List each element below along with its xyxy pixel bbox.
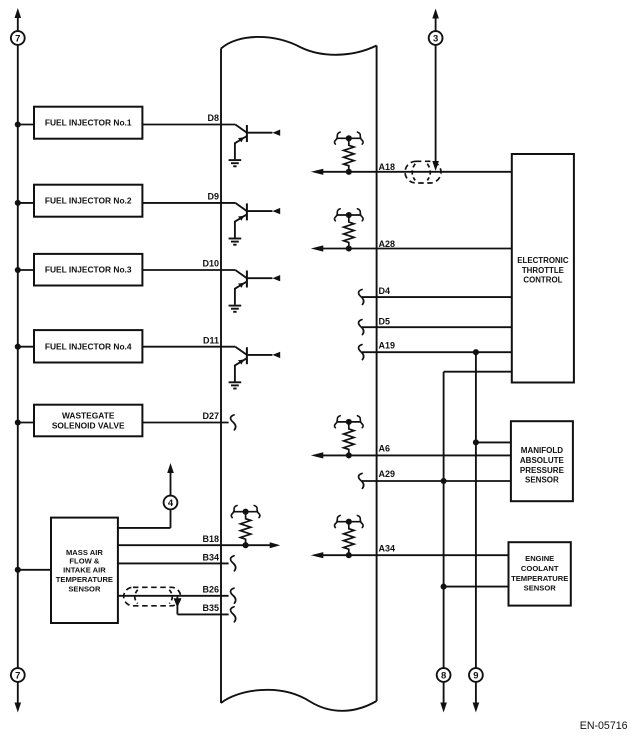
wire: ECM pin D5 to electronic throttle control [362, 326, 512, 328]
svg-text:9: 9 [473, 670, 478, 681]
electronic throttle control box [512, 154, 574, 383]
wire continuation squiggle at B34 [231, 556, 236, 571]
connector 4 arrow up [170, 472, 172, 496]
svg-text:D9: D9 [207, 192, 219, 202]
wire continuation squiggle at A19 [359, 345, 364, 360]
ground (transistor Q2 emitter) [229, 239, 242, 245]
wire: ECM pin A28 to electronic throttle control [316, 248, 512, 250]
svg-text:FUEL INJECTOR No.2: FUEL INJECTOR No.2 [45, 196, 132, 206]
svg-text:D5: D5 [379, 316, 391, 326]
wire continuation squiggle at D5 [359, 320, 364, 335]
svg-text:EN-05716: EN-05716 [580, 720, 628, 732]
injector driver transistor Q2 [142, 203, 280, 238]
left power bus vertical wire [17, 18, 19, 32]
ECM band torn bottom edge [221, 690, 377, 711]
svg-text:A18: A18 [379, 162, 396, 172]
wire: MAF pin B18 with pull-up [118, 544, 271, 546]
connector circle 9 [469, 668, 483, 682]
svg-text:MASS AIR: MASS AIR [66, 548, 103, 557]
junction dot A19 / sensor supply [473, 349, 479, 355]
svg-text:MANIFOLD: MANIFOLD [521, 446, 563, 455]
wire: bus to fuel injector 3 [18, 269, 34, 271]
wire: wastegate to ECM pin D27 [142, 422, 228, 424]
wire continuation squiggle at B26 [231, 588, 236, 603]
A6 arrow left [311, 452, 324, 458]
wire: vertical drain to connector 8 [443, 372, 445, 669]
svg-text:B26: B26 [202, 585, 219, 595]
junction dot on bus at injector 2 row [15, 200, 21, 206]
connector 3 arrow down to A18 [432, 161, 439, 171]
svg-text:4: 4 [168, 498, 174, 509]
svg-text:TEMPERATURE: TEMPERATURE [56, 575, 113, 584]
junction dot at A29 tap [441, 478, 447, 484]
resistor (pull-up) on A6 [334, 416, 363, 459]
connector 9 arrow down [475, 682, 477, 703]
svg-text:D8: D8 [207, 113, 219, 123]
svg-text:FLOW &: FLOW & [69, 557, 99, 566]
wastegate solenoid valve box [34, 405, 142, 437]
wire continuation squiggle at D4 [359, 290, 364, 305]
svg-text:B34: B34 [202, 552, 219, 562]
junction dot on bus at MAF row [15, 567, 21, 573]
wire: bus to fuel injector 4 [18, 346, 34, 348]
junction dot on bus at injector 1 row [15, 121, 21, 127]
svg-text:COOLANT: COOLANT [521, 564, 559, 573]
manifold absolute pressure sensor box [511, 421, 573, 501]
svg-text:TEMPERATURE: TEMPERATURE [511, 574, 568, 583]
left bus top arrow [15, 8, 22, 18]
svg-text:CONTROL: CONTROL [523, 275, 562, 284]
svg-text:D11: D11 [203, 335, 219, 345]
svg-text:ENGINE: ENGINE [525, 554, 554, 563]
svg-text:A28: A28 [379, 239, 396, 249]
wire: connector 3 drop [435, 44, 437, 163]
connector 3 arrow up [435, 19, 437, 32]
junction dot at MAP supply tap [473, 439, 479, 445]
svg-text:SENSOR: SENSOR [524, 584, 557, 593]
fuel injector No.3 box [34, 254, 142, 286]
mass air flow & intake air temperature sensor box [51, 518, 118, 623]
connector circle 3 [429, 31, 443, 45]
wire: MAF pin B26 [118, 595, 229, 597]
injector driver transistor Q4 [142, 347, 280, 382]
inline connector (dashed) on A18 [405, 161, 441, 183]
resistor (pull-up) on B18 [231, 506, 260, 549]
ECM band torn top edge [221, 37, 377, 55]
svg-text:B35: B35 [202, 603, 219, 613]
svg-text:7: 7 [15, 33, 20, 44]
wire: sensor supply vertical to connector 9 [475, 352, 477, 668]
wire: splice drop B26 to B35 [176, 596, 178, 615]
svg-text:ELECTRONIC: ELECTRONIC [517, 256, 569, 265]
fuel injector No.4 box [34, 330, 142, 362]
A28 arrow left [311, 245, 324, 251]
engine coolant temperature sensor box [509, 542, 571, 605]
connector 8 arrow down [443, 682, 445, 703]
svg-text:3: 3 [433, 33, 438, 44]
connector circle 8 [437, 668, 451, 682]
svg-text:D4: D4 [379, 286, 391, 296]
wire: MAF to connector 4 [118, 527, 171, 529]
svg-text:THROTTLE: THROTTLE [522, 266, 564, 275]
junction dot on bus at injector 4 row [15, 344, 21, 350]
svg-text:A29: A29 [379, 469, 396, 479]
wire continuation squiggle at A29 [359, 473, 364, 488]
wire continuation squiggle at B35 [231, 607, 236, 622]
svg-text:SOLENOID VALVE: SOLENOID VALVE [52, 421, 125, 431]
svg-text:FUEL INJECTOR No.4: FUEL INJECTOR No.4 [45, 341, 132, 351]
A18 arrow left [311, 169, 324, 175]
wire: MAF pin B34 [118, 562, 229, 564]
ground (transistor Q1 emitter) [229, 160, 242, 166]
connector circle 7 (top) [11, 31, 25, 45]
wire: bus to MAF sensor [18, 569, 51, 571]
svg-text:A19: A19 [379, 340, 396, 350]
junction dot at coolant sensor tap [441, 584, 447, 590]
wire: electronic throttle control to shield drain [444, 371, 512, 373]
svg-text:FUEL INJECTOR No.1: FUEL INJECTOR No.1 [45, 118, 132, 128]
injector driver transistor Q1 [142, 125, 280, 160]
junction dot on bus at injector 3 row [15, 267, 21, 273]
svg-text:8: 8 [441, 670, 446, 681]
left bus bottom arrow segment [17, 682, 19, 703]
svg-text:SENSOR: SENSOR [525, 476, 559, 485]
wire: ECM pin A18 to electronic throttle control [316, 171, 512, 173]
wire: drain tap to coolant sensor [444, 586, 509, 588]
svg-text:ABSOLUTE: ABSOLUTE [520, 456, 565, 465]
splice arrow down to B35 [174, 598, 182, 608]
wire: ECM pin A19 to electronic throttle control [362, 351, 512, 353]
wire: bus to fuel injector 2 [18, 202, 34, 204]
ground (transistor Q4 emitter) [229, 382, 242, 388]
svg-text:FUEL INJECTOR No.3: FUEL INJECTOR No.3 [45, 265, 132, 275]
ECM band right edge [376, 46, 378, 702]
wire: ECM pin A29 to MAP sensor [362, 480, 511, 482]
wire: ECM pin A6 to MAP sensor [316, 454, 511, 456]
wire: bus to fuel injector 1 [18, 124, 34, 126]
resistor (pull-up) on A28 [334, 209, 363, 252]
wire: supply tap to MAP sensor [476, 441, 511, 443]
wire: bus to wastegate solenoid valve [18, 422, 34, 424]
resistor (pull-up) on A18 [334, 132, 363, 175]
ground (transistor Q3 emitter) [229, 306, 242, 312]
wire: ECM pin D4 to electronic throttle control [362, 296, 512, 298]
svg-text:7: 7 [15, 670, 20, 681]
junction dot on bus at wastegate row [15, 419, 21, 425]
svg-text:B18: B18 [202, 534, 219, 544]
connector circle 4 [164, 496, 178, 510]
inline connector (dashed) on B26/B35 [124, 587, 181, 606]
connector circle 7 (bottom) [11, 668, 25, 682]
svg-text:A34: A34 [379, 544, 396, 554]
ECM band left edge [220, 49, 222, 704]
svg-text:D27: D27 [202, 411, 219, 421]
svg-text:D10: D10 [202, 259, 219, 269]
svg-text:PRESSURE: PRESSURE [520, 466, 565, 475]
fuel injector No.2 box [34, 185, 142, 217]
svg-text:SENSOR: SENSOR [68, 584, 101, 593]
wire continuation squiggle at D27 [231, 415, 236, 430]
resistor (pull-up) on A34 [334, 516, 363, 559]
injector driver transistor Q3 [142, 270, 280, 305]
wire: pin B35 [177, 613, 228, 615]
svg-text:WASTEGATE: WASTEGATE [62, 411, 115, 421]
wire: ECM pin A34 to coolant sensor [316, 554, 509, 556]
A34 arrow left [311, 552, 324, 558]
svg-text:A6: A6 [379, 444, 391, 454]
svg-text:INTAKE AIR: INTAKE AIR [63, 566, 106, 575]
fuel injector No.1 box [34, 107, 142, 139]
B18 arrow right [270, 542, 281, 548]
